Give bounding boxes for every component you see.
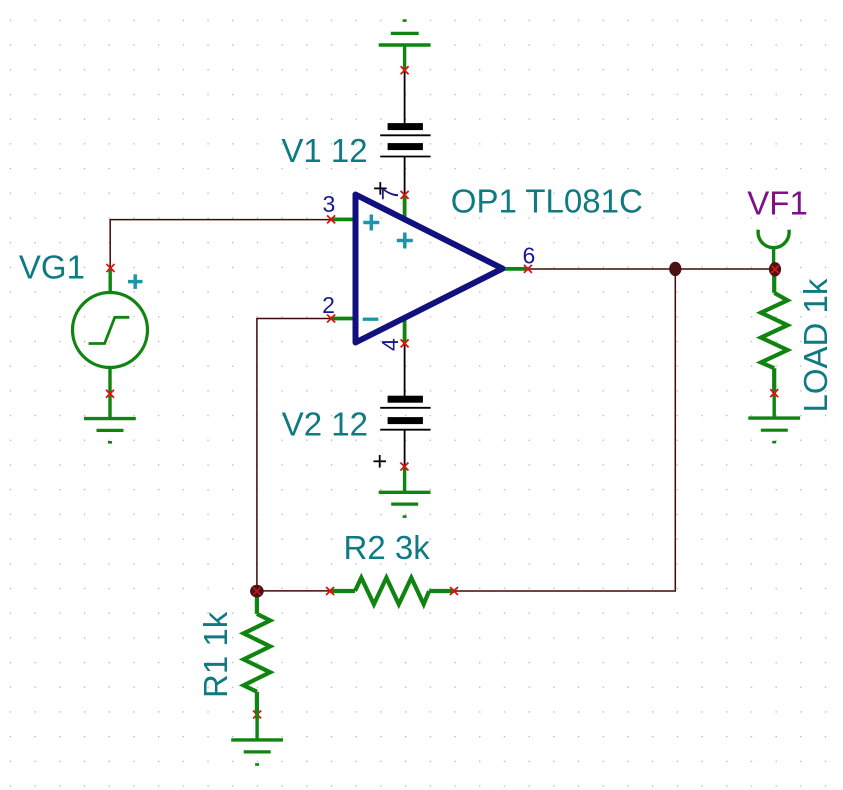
ground G4 (below LOAD) <box>748 393 800 442</box>
wire V1 bottom lead <box>404 157 406 195</box>
probe VF1 <box>758 230 789 270</box>
op-amp OP1 <box>356 195 503 343</box>
x pin 4 <box>401 339 409 347</box>
x V2 bottom <box>400 463 408 471</box>
wire pin6 to node C <box>528 268 775 270</box>
svg-text:V2 12: V2 12 <box>282 406 368 443</box>
pin 4 stub <box>403 318 407 343</box>
svg-text:2: 2 <box>322 292 335 318</box>
svg-text:V1 12: V1 12 <box>281 132 367 169</box>
ground G3 (below VG1) <box>84 394 136 443</box>
junction node C (VF1/LOAD) <box>769 262 781 276</box>
x LOAD bottom <box>770 389 778 397</box>
ground G2 (below V2) <box>379 467 431 517</box>
x node C <box>771 266 778 273</box>
op-amp non-inverting input marker + <box>363 215 379 231</box>
wire node A to R2 left <box>257 590 330 592</box>
x R2 left <box>326 587 334 595</box>
battery V2 <box>380 396 430 430</box>
source VG1 <box>73 268 148 394</box>
x V1 top <box>401 66 409 74</box>
svg-text:OP1 TL081C: OP1 TL081C <box>451 183 643 220</box>
wire V2 top lead <box>404 343 406 399</box>
resistor R1 <box>244 591 271 715</box>
x VG1 top <box>107 264 115 272</box>
junction node A (feedback/R1/R2) <box>250 585 264 598</box>
polarity + of V2 <box>374 455 387 468</box>
polarity + of VG1 <box>128 274 143 289</box>
resistor R2 <box>330 578 454 605</box>
pin 6 stub <box>503 267 528 271</box>
wire R2 right to node B <box>454 269 675 591</box>
x pin 7 <box>401 191 409 199</box>
x pin 3 <box>327 215 335 223</box>
svg-text:VF1: VF1 <box>747 185 808 222</box>
ground G5 (below R1) <box>231 715 283 765</box>
connection x marks <box>106 66 779 718</box>
wire pin2 to node A <box>257 319 331 591</box>
x pin 6 <box>524 265 532 273</box>
pin 3 stub <box>331 217 355 221</box>
svg-text:R1 1k: R1 1k <box>197 611 234 698</box>
pin 2 stub <box>331 317 355 321</box>
svg-text:LOAD 1k: LOAD 1k <box>797 278 834 412</box>
x R2 right <box>450 587 458 595</box>
svg-text:3: 3 <box>323 191 336 217</box>
op-amp positive supply marker + <box>397 233 413 249</box>
svg-text:4: 4 <box>377 338 403 351</box>
svg-text:VG1: VG1 <box>19 249 85 286</box>
pin 7 stub <box>403 195 407 220</box>
junction node B (output split) <box>669 262 681 276</box>
wire V1 top lead <box>404 70 406 123</box>
battery V1 <box>380 123 430 156</box>
wire VG1 to pin3 <box>110 220 331 268</box>
x R1 bottom <box>253 711 261 719</box>
polarity + of V1 <box>374 182 387 195</box>
wire V2 bottom lead <box>404 430 406 467</box>
x pin 2 <box>327 315 335 323</box>
wire R1 ground stem overlap <box>255 710 258 721</box>
svg-text:R2 3k: R2 3k <box>344 529 431 566</box>
ground G1 top (above V1) <box>379 21 431 71</box>
op-amp inverting input marker - <box>363 318 379 321</box>
svg-text:7: 7 <box>377 188 403 201</box>
resistor LOAD <box>761 269 788 393</box>
x VG1 bottom <box>106 390 114 398</box>
